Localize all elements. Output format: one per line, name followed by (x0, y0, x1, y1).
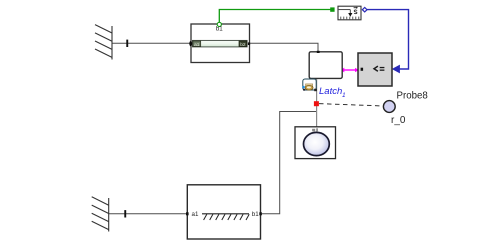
svg-text:Probe8: Probe8 (397, 91, 428, 102)
svg-text:1: 1 (342, 92, 346, 99)
svg-text:r_0: r_0 (391, 115, 406, 126)
svg-text:a1: a1 (194, 42, 200, 48)
svg-text:Latch: Latch (319, 86, 342, 97)
svg-text:b2: b2 (240, 42, 246, 48)
svg-text:b1: b1 (216, 26, 223, 33)
svg-text:b1: b1 (252, 211, 259, 218)
svg-text:a1: a1 (192, 211, 199, 218)
